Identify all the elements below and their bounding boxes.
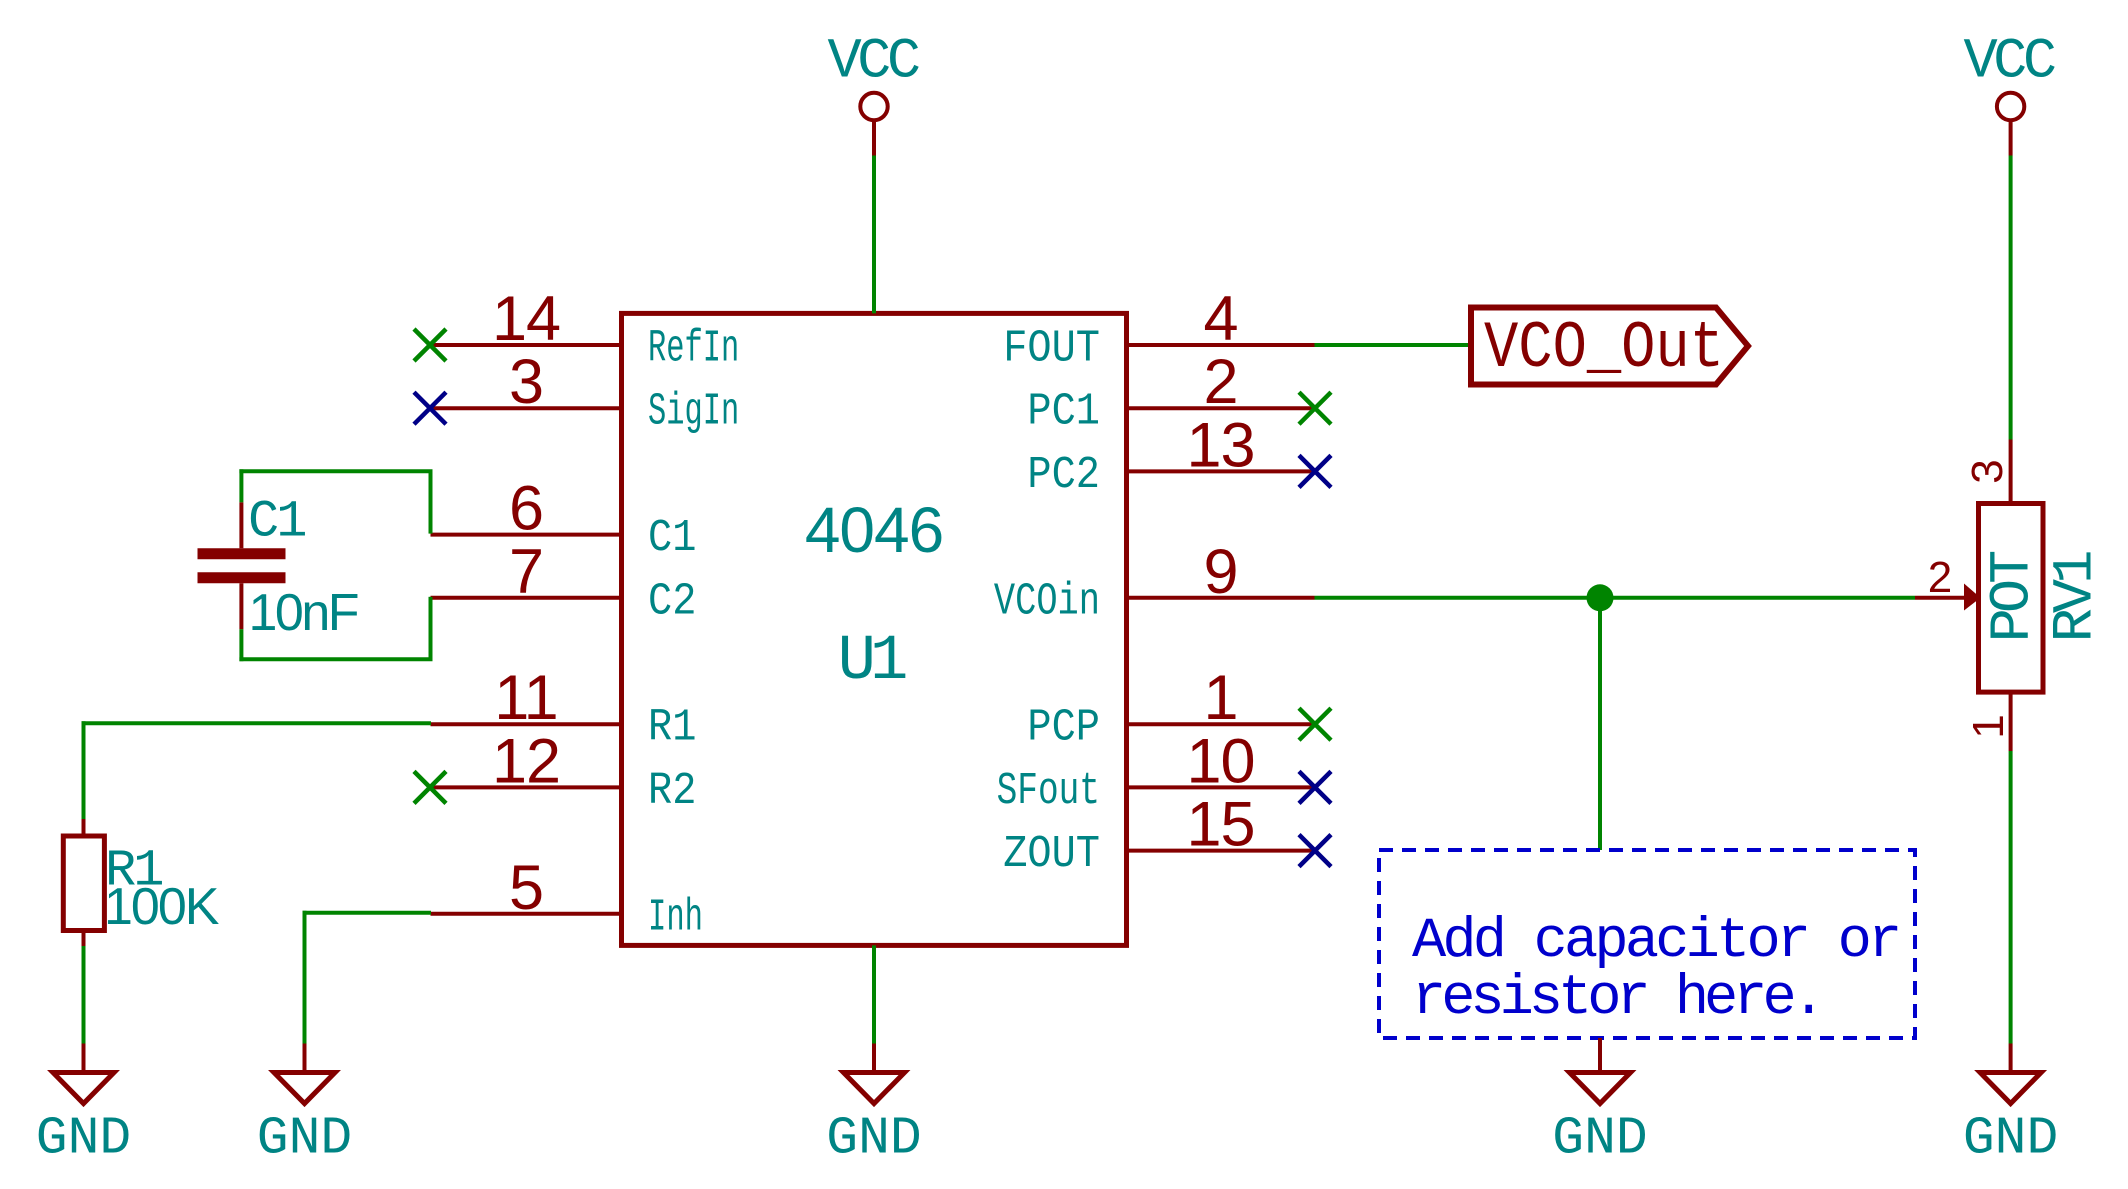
svg-text:9: 9 <box>1203 537 1237 607</box>
pin 5 Inh (left) <box>431 853 704 944</box>
pin 11 R1 (left) <box>431 663 697 754</box>
svg-text:6: 6 <box>509 474 543 544</box>
ground GND4 <box>1598 1038 1602 1070</box>
pin 7 C2 (left) <box>431 537 697 628</box>
svg-text:PCP: PCP <box>1027 703 1100 754</box>
svg-text:C1: C1 <box>248 493 305 552</box>
ground GND1 <box>82 1044 86 1071</box>
svg-text:VCC: VCC <box>1963 31 2054 95</box>
no-connect pin 12 <box>414 771 446 803</box>
potentiometer RV1 <box>1915 440 2043 752</box>
ground GND3 <box>872 1044 876 1071</box>
pin 3 SigIn (left) <box>431 347 740 438</box>
wire VCC1 to U1 VDD <box>872 156 876 314</box>
pin 6 C1 (left) <box>431 474 697 565</box>
svg-text:Add capacitor or: Add capacitor or <box>1412 910 1899 974</box>
svg-text:POT: POT <box>1982 551 2046 642</box>
wire VCC2 to RV1 pin 3 <box>2009 156 2013 440</box>
wire C1 bottom to pin 7 <box>239 597 432 661</box>
pin 10 SFout (right) <box>997 726 1315 817</box>
svg-text:resistor here.: resistor here. <box>1412 967 1821 1031</box>
svg-text:1: 1 <box>1203 663 1237 733</box>
svg-text:SigIn: SigIn <box>648 387 739 438</box>
svg-text:FOUT: FOUT <box>1003 324 1100 375</box>
no-connect pin 15 <box>1299 835 1331 867</box>
svg-text:2: 2 <box>1928 553 1952 602</box>
svg-text:GND: GND <box>257 1109 352 1169</box>
svg-text:C1: C1 <box>648 513 696 564</box>
wire U1 GND to GND3 <box>872 945 876 1043</box>
svg-text:SFout: SFout <box>997 766 1100 817</box>
power symbol VCC (top right) <box>1963 31 2054 156</box>
svg-text:R1: R1 <box>648 703 696 754</box>
no-connect pin 14 <box>414 329 446 361</box>
svg-text:100K: 100K <box>104 878 220 936</box>
svg-text:RefIn: RefIn <box>648 324 739 375</box>
junction at node VCOin <box>1587 584 1614 611</box>
wire pin 4 FOUT to VCO_Out <box>1315 343 1472 347</box>
svg-text:5: 5 <box>509 853 543 923</box>
svg-text:14: 14 <box>492 284 560 354</box>
svg-text:4046: 4046 <box>805 494 943 566</box>
wire R1 top to pin 11 <box>82 721 432 819</box>
ground GND5 <box>2009 1044 2013 1071</box>
no-connect pin 1 <box>1299 708 1331 740</box>
pin 13 PC2 (right) <box>1027 410 1314 501</box>
wire RV1 pin 1 to GND5 <box>2009 751 2013 1044</box>
pin 14 RefIn (left) <box>431 284 740 375</box>
svg-text:R2: R2 <box>648 766 696 817</box>
resistor R1 <box>63 819 104 946</box>
no-connect pin 2 <box>1299 392 1331 424</box>
svg-text:2: 2 <box>1203 347 1237 417</box>
hierarchical label VCO_Out <box>1471 308 1748 387</box>
svg-text:7: 7 <box>509 537 543 607</box>
svg-text:GND: GND <box>826 1109 921 1169</box>
pin 9 VCOin (right) <box>994 537 1315 628</box>
note box (dashed) <box>1379 850 1915 1038</box>
power symbol VCC (top middle) <box>827 31 918 156</box>
svg-text:ZOUT: ZOUT <box>1003 829 1100 880</box>
svg-text:GND: GND <box>1552 1109 1647 1169</box>
svg-text:3: 3 <box>1963 459 2012 483</box>
svg-text:15: 15 <box>1186 790 1254 860</box>
wire pin 5 Inh to GND2 <box>303 911 432 1044</box>
IC U1 4046 <box>622 313 1127 945</box>
svg-text:GND: GND <box>1963 1109 2058 1169</box>
capacitor C1 <box>198 502 286 629</box>
wire R1 bottom to GND1 <box>82 946 86 1044</box>
svg-text:U1: U1 <box>838 626 906 698</box>
no-connect pin 13 <box>1299 455 1331 487</box>
wire C1 top to pin 6 <box>239 469 432 533</box>
svg-text:11: 11 <box>494 663 557 733</box>
svg-text:GND: GND <box>36 1109 131 1169</box>
svg-text:C2: C2 <box>648 576 696 627</box>
pin 1 PCP (right) <box>1027 663 1314 754</box>
svg-text:VCC: VCC <box>827 31 918 95</box>
svg-text:Inh: Inh <box>648 892 703 943</box>
svg-text:1: 1 <box>1964 714 2013 738</box>
svg-text:VCO_Out: VCO_Out <box>1484 311 1724 386</box>
no-connect pin 3 <box>414 392 446 424</box>
svg-text:RV1: RV1 <box>2045 552 2109 642</box>
pin 4 FOUT (right) <box>1003 284 1314 375</box>
svg-text:4: 4 <box>1203 284 1237 354</box>
svg-text:10nF: 10nF <box>249 584 358 642</box>
pin 2 PC1 (right) <box>1027 347 1314 438</box>
wire pin 9 VCOin to RV1 wiper <box>1315 596 1916 600</box>
svg-text:10: 10 <box>1186 726 1254 796</box>
no-connect pin 10 <box>1299 771 1331 803</box>
wire junction down to note box <box>1598 598 1602 850</box>
pin 12 R2 (left) <box>431 726 697 817</box>
pin 15 ZOUT (right) <box>1003 790 1314 881</box>
svg-text:VCOin: VCOin <box>994 576 1100 627</box>
svg-text:PC1: PC1 <box>1027 387 1100 438</box>
svg-text:13: 13 <box>1186 410 1254 480</box>
svg-text:3: 3 <box>509 347 543 417</box>
svg-text:PC2: PC2 <box>1027 450 1100 501</box>
ground GND2 <box>303 1044 307 1071</box>
svg-text:12: 12 <box>492 726 560 796</box>
